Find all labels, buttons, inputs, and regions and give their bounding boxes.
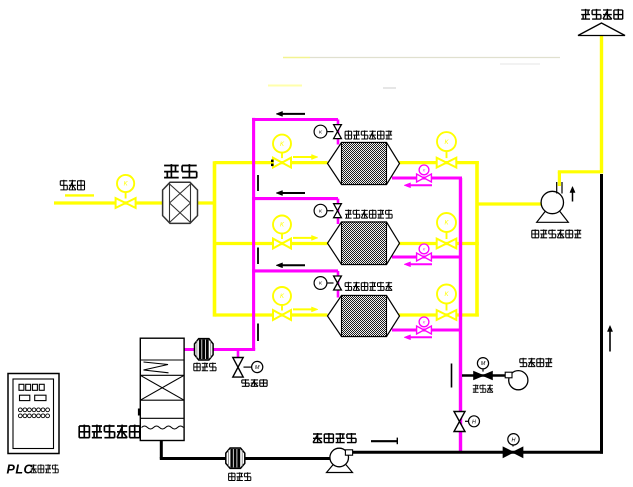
svg-text:H: H <box>472 419 476 425</box>
svg-text:PLC: PLC <box>7 463 34 477</box>
svg-text:H: H <box>512 437 516 443</box>
svg-text:K: K <box>423 320 426 324</box>
svg-text:K: K <box>423 168 426 172</box>
svg-text:K: K <box>423 247 426 251</box>
svg-text:M: M <box>255 365 260 371</box>
svg-text:M: M <box>481 361 486 367</box>
